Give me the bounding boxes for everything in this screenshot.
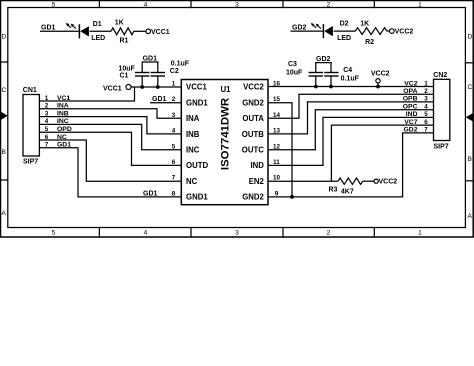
svg-text:LED: LED [337, 35, 351, 42]
svg-text:D: D [2, 34, 7, 41]
wire GD1 bar to C2 [157, 62, 159, 72]
wire VCC1 rail to U1 pin 1 [131, 86, 181, 88]
svg-text:1K: 1K [360, 21, 369, 28]
svg-text:SIP7: SIP7 [23, 159, 38, 166]
svg-text:1: 1 [172, 81, 176, 88]
wire D2 to R2 [334, 30, 356, 32]
svg-text:CN1: CN1 [23, 87, 37, 94]
wire C2 to VCC1 rail [157, 76, 159, 87]
svg-text:OPC: OPC [403, 104, 418, 111]
svg-text:GD1: GD1 [143, 190, 158, 197]
frame tick left B/A [1, 179, 8, 181]
LED D1 triangle [80, 26, 89, 36]
svg-text:3: 3 [235, 230, 239, 237]
wire GD1 stub at U1 pin 2 [150, 102, 181, 104]
svg-text:GD1: GD1 [152, 96, 167, 103]
svg-text:2: 2 [327, 2, 331, 9]
svg-text:3: 3 [235, 2, 239, 9]
wire GD2 to D2 [291, 30, 323, 32]
frame tick top 2/1 [373, 1, 375, 8]
svg-text:GD1: GD1 [143, 55, 158, 62]
capacitor C2 plates [151, 72, 165, 74]
wire OUTA: U1 pin 14 to CN2-2 [268, 94, 434, 118]
svg-text:INC: INC [186, 146, 200, 155]
resistor R2 body [355, 28, 387, 35]
frame tick top 4/3 [190, 1, 192, 8]
svg-text:2: 2 [327, 230, 331, 237]
svg-text:VC7: VC7 [404, 119, 417, 126]
wire C1 to VCC1 rail [141, 76, 143, 87]
svg-text:CN2: CN2 [433, 72, 447, 79]
svg-text:VCC1: VCC1 [103, 86, 122, 93]
svg-text:1: 1 [424, 80, 428, 87]
svg-text:R3: R3 [329, 187, 338, 194]
capacitor C1 plates [135, 72, 149, 74]
frame zone letters left [2, 34, 7, 218]
svg-text:VCC2: VCC2 [395, 29, 414, 36]
wire VCC2 port to rail [377, 83, 379, 87]
LED D2 cathode bar [322, 24, 324, 38]
frame tick bottom 5/4 [98, 228, 100, 238]
svg-text:VCC2: VCC2 [243, 83, 264, 92]
svg-text:2: 2 [172, 96, 176, 103]
svg-text:INB: INB [186, 130, 200, 139]
svg-text:4: 4 [144, 2, 148, 9]
svg-text:NC: NC [186, 177, 198, 186]
svg-text:SIP7: SIP7 [434, 144, 449, 151]
svg-text:VCC1: VCC1 [151, 29, 170, 36]
svg-text:C: C [468, 84, 473, 91]
LED D1 cathode bar [78, 24, 80, 38]
frame tick right B/A [465, 180, 473, 182]
svg-text:C1: C1 [120, 73, 129, 80]
svg-text:0.1uF: 0.1uF [341, 76, 360, 83]
svg-text:10uF: 10uF [119, 65, 136, 72]
LED D1 light arrows [66, 23, 76, 29]
junction C4/VCC2 rail [329, 85, 333, 89]
svg-text:3: 3 [424, 96, 428, 103]
svg-text:OUTA: OUTA [242, 114, 264, 123]
net label bar GD2 (caps) [315, 62, 332, 64]
wire GND2: U1 pin 15 down to GND2 rail [268, 103, 292, 197]
wire NC: CN1-6 to U1 pin 7 [39, 140, 181, 181]
svg-text:4K7: 4K7 [341, 189, 354, 196]
svg-text:OPA: OPA [403, 88, 417, 95]
svg-text:C: C [2, 87, 7, 94]
wire R3 to VCC2 [363, 180, 374, 182]
power port VCC1 (top) [146, 29, 151, 34]
wire GD2 bar to C3 [315, 63, 317, 73]
svg-text:1: 1 [418, 2, 422, 9]
svg-text:VCC2: VCC2 [371, 71, 390, 78]
svg-text:2: 2 [424, 88, 428, 95]
svg-text:C2: C2 [170, 68, 179, 75]
junction GND2 rail [290, 195, 294, 199]
svg-text:D: D [468, 34, 473, 41]
wire GD1 to D1 [40, 30, 79, 32]
svg-text:OUTC: OUTC [242, 146, 264, 155]
junction C1/VCC1 rail [140, 85, 144, 89]
svg-text:0.1uF: 0.1uF [171, 61, 190, 68]
frame zone numbers bottom [52, 230, 423, 237]
svg-text:ISO7741DWR: ISO7741DWR [220, 98, 232, 170]
svg-text:A: A [2, 210, 7, 217]
svg-text:U1: U1 [221, 85, 232, 94]
svg-text:10uF: 10uF [286, 70, 303, 77]
LED D2 triangle [324, 26, 333, 36]
svg-text:OUTB: OUTB [242, 130, 264, 139]
wire GND2 rail: U1 pin 9 to CN2-7 [268, 133, 434, 197]
svg-text:IND: IND [250, 161, 264, 170]
svg-text:1: 1 [418, 230, 422, 237]
svg-text:GND1: GND1 [186, 193, 208, 202]
svg-text:B: B [468, 156, 473, 163]
junction VCC2 port/rail [376, 85, 380, 89]
svg-text:GD2: GD2 [292, 24, 307, 31]
resistor R1 body [111, 28, 134, 35]
net label bar GD1 (caps) [142, 61, 159, 63]
svg-text:A: A [468, 213, 473, 220]
svg-text:D1: D1 [93, 21, 102, 28]
capacitor C4 plates [324, 72, 338, 74]
capacitor C3 plates [309, 72, 323, 74]
wire OPD: CN1-5 to U1 pin 6 [39, 132, 181, 165]
svg-text:5: 5 [424, 111, 428, 118]
frame tick top 5/4 [98, 1, 100, 8]
frame centering arrow right [466, 113, 474, 122]
svg-text:7: 7 [172, 175, 176, 182]
power port VCC2 (R3) [374, 179, 378, 183]
wire IND: U1 pin 11 to CN2-5 [268, 117, 434, 165]
wire D1 to R1 [90, 30, 111, 32]
svg-text:7: 7 [424, 127, 428, 134]
wire INC: CN1-4 to U1 pin 5 [39, 124, 181, 149]
svg-text:LED: LED [91, 35, 105, 42]
resistor R3 body [338, 178, 363, 184]
wire R2 to VCC2 [387, 30, 390, 32]
svg-text:INA: INA [186, 114, 200, 123]
svg-text:4: 4 [172, 128, 176, 135]
svg-text:GD1: GD1 [41, 25, 56, 32]
frame tick top 3/2 [282, 1, 284, 8]
svg-text:B: B [2, 149, 7, 156]
svg-text:5: 5 [52, 230, 56, 237]
wire GD1: CN1-7 to U1 pin 8 [39, 148, 181, 197]
junction C3/VCC2 rail [314, 85, 318, 89]
wire OUTB: U1 pin 13 to CN2-3 [268, 102, 434, 134]
frame tick bottom 4/3 [190, 228, 192, 238]
wire INA: CN1-2 to U1 pin 3 [39, 109, 181, 118]
svg-text:R1: R1 [120, 38, 129, 45]
wire INB: CN1-3 to U1 pin 4 [39, 117, 181, 134]
svg-text:6: 6 [172, 159, 176, 166]
svg-text:5: 5 [172, 143, 176, 150]
svg-text:GND2: GND2 [242, 193, 264, 202]
svg-text:C4: C4 [343, 67, 352, 74]
sheet inner frame [8, 8, 466, 228]
frame tick left D/C [1, 61, 8, 63]
frame zone letters right [468, 34, 473, 221]
wire EN2: U1 pin 10 to R3 [268, 180, 338, 182]
wire C3 to VCC2 rail [315, 76, 317, 87]
wire OUTC: U1 pin 12 to CN2-4 [268, 110, 434, 150]
svg-text:GND2: GND2 [242, 98, 264, 107]
frame centering arrow left [1, 112, 8, 121]
wire EN2 up to CN2-6 [331, 125, 433, 181]
svg-text:6: 6 [424, 119, 428, 126]
sheet outer border [0, 1, 473, 238]
svg-text:4: 4 [424, 104, 428, 111]
junction C2/VCC1 rail [156, 85, 160, 89]
frame zone numbers top [52, 2, 423, 9]
wire VC1: CN1-1 up to VCC1 rail [39, 87, 134, 101]
svg-text:GD2: GD2 [404, 127, 418, 134]
svg-text:EN2: EN2 [249, 177, 265, 186]
LED D2 light arrows [311, 23, 321, 29]
svg-text:C3: C3 [288, 61, 297, 68]
wire VCC2 rail: U1 pin 16 to CN2-1 [268, 86, 434, 88]
svg-text:R2: R2 [365, 39, 374, 46]
svg-text:VCC2: VCC2 [379, 179, 398, 186]
power port VCC2 (top) [390, 29, 395, 34]
svg-text:1K: 1K [115, 19, 124, 26]
frame tick bottom 2/1 [373, 228, 375, 238]
wire GD2 bar to C4 [330, 63, 332, 73]
svg-text:VC2: VC2 [404, 80, 417, 87]
svg-text:4: 4 [144, 230, 148, 237]
svg-text:IND: IND [406, 111, 418, 118]
frame tick bottom 3/2 [282, 228, 284, 238]
svg-text:VCC1: VCC1 [186, 83, 207, 92]
svg-text:OUTD: OUTD [186, 161, 208, 170]
svg-text:5: 5 [52, 2, 56, 9]
wire R1 to VCC1 [134, 30, 146, 32]
svg-text:GD2: GD2 [316, 56, 331, 63]
svg-text:8: 8 [172, 190, 176, 197]
svg-text:OPB: OPB [403, 96, 418, 103]
svg-text:GND1: GND1 [186, 98, 208, 107]
frame tick right D/C [465, 62, 473, 64]
wire GD1 bar to C1 [141, 62, 143, 72]
wire C4 to VCC2 rail [330, 76, 332, 87]
svg-text:D2: D2 [340, 21, 349, 28]
svg-text:3: 3 [172, 112, 176, 119]
